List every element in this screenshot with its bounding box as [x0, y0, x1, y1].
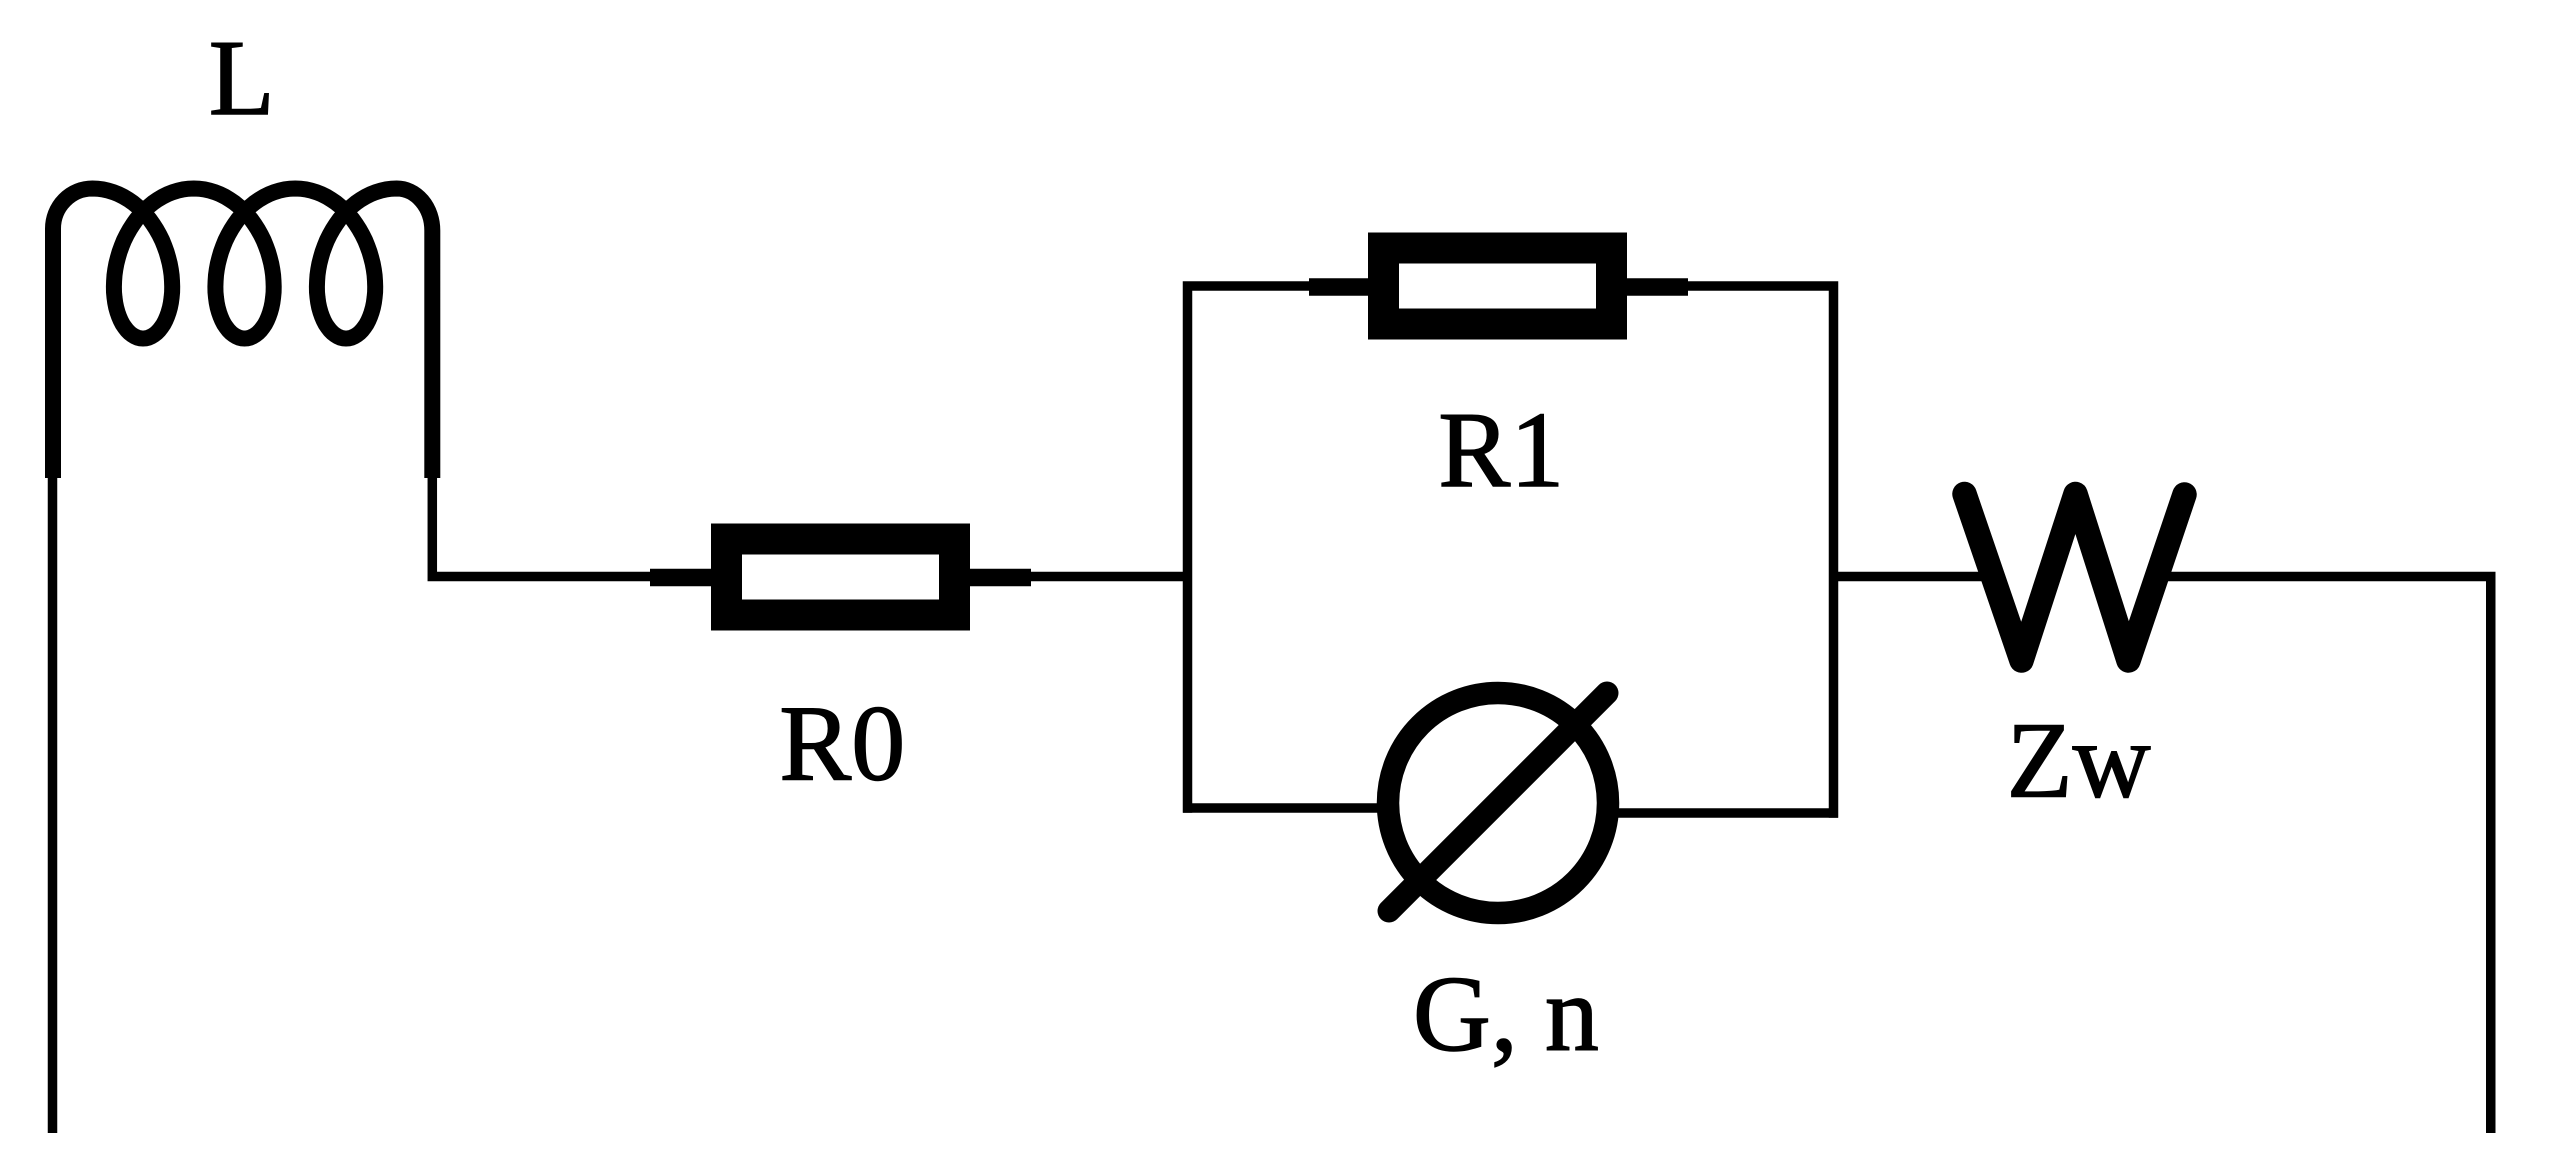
Warburg element W — [1965, 494, 2185, 661]
CPE circle G,n — [1388, 693, 1608, 913]
resistor R0 right pin stub — [969, 569, 1031, 587]
inductor L — [53, 189, 432, 479]
wire R0 to parallel block — [1030, 572, 1192, 582]
wire left vertical drop — [48, 471, 58, 1133]
svg-text:Zw: Zw — [2007, 701, 2151, 820]
wire parallel block to Warburg W — [1838, 572, 1990, 582]
resistor R1 body — [1368, 233, 1627, 340]
wire W to right edge and down — [2160, 577, 2491, 1134]
parallel block bottom rail right segment — [1540, 808, 1838, 818]
resistor R0 body — [711, 524, 970, 631]
resistor R1 left pin stub — [1309, 278, 1369, 296]
parallel block frame: left vertical, top rail, right vertical — [1188, 286, 1834, 818]
svg-text:R0: R0 — [779, 685, 905, 804]
resistor R1 right pin stub — [1626, 278, 1688, 296]
svg-text:G, n: G, n — [1413, 955, 1599, 1074]
CPE slash — [1389, 693, 1607, 911]
parallel block bottom rail left segment — [1183, 803, 1460, 813]
svg-text:R1: R1 — [1438, 391, 1564, 510]
wire from inductor right lead to R0 — [432, 471, 650, 577]
svg-text:L: L — [209, 19, 275, 138]
resistor R0 left pin stub — [650, 569, 712, 587]
